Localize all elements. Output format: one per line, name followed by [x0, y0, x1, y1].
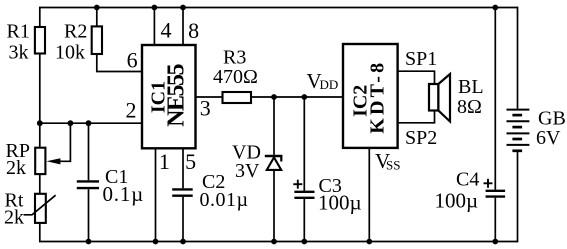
wire battery bottom lead [517, 152, 519, 243]
potentiometer RP [6, 140, 61, 179]
wire C4 top lead [494, 8, 496, 190]
wire VSS to bottom rail [368, 148, 370, 242]
wire bottom rail [40, 241, 518, 243]
svg-text:SP1: SP1 [405, 48, 437, 70]
node junction dot C4/bottom rail [492, 239, 498, 245]
svg-text:3: 3 [200, 96, 211, 121]
node junction dot pin1/bottom rail [153, 239, 159, 245]
node VDD label [307, 69, 339, 93]
node junction dot C2/bottom rail [180, 239, 186, 245]
wire pin 2 horizontal [40, 122, 142, 124]
wire R2 to pin 6 [97, 54, 142, 72]
resistor R1 [7, 21, 46, 64]
svg-text:3V: 3V [235, 160, 260, 182]
wire R3 to IC2 VDD [251, 96, 343, 98]
svg-text:8Ω: 8Ω [457, 96, 482, 118]
svg-text:2: 2 [126, 97, 137, 122]
plus sign C3 [293, 183, 302, 185]
wire R1 to pin2 node [39, 54, 41, 148]
svg-text:100µ: 100µ [318, 191, 362, 215]
resistor R3 [213, 47, 258, 104]
svg-text:6: 6 [127, 48, 138, 73]
wire top rail [40, 7, 518, 9]
svg-text:R2: R2 [64, 21, 87, 43]
wire C2 to bottom rail [182, 197, 184, 242]
thermistor diagonal stroke [24, 195, 56, 215]
svg-text:SP2: SP2 [405, 127, 437, 149]
svg-text:4: 4 [161, 18, 172, 43]
svg-text:6V: 6V [536, 127, 561, 149]
node junction dot C1 tap [86, 120, 92, 126]
node junction dot C4/top rail [492, 5, 498, 11]
wire battery top lead [517, 7, 519, 109]
speaker BL [429, 74, 484, 122]
wire pin 4 [153, 8, 155, 46]
capacitor C4 (polarized) [435, 169, 506, 213]
node junction dot pin4/top rail [152, 5, 158, 11]
plus sign C4 [484, 182, 493, 184]
svg-text:SS: SS [386, 158, 400, 173]
capacitor C3 (polarized) [293, 175, 361, 215]
wire RP wiper arrow lead [60, 123, 71, 161]
wire C3 top lead [303, 97, 305, 191]
wire SP1 to speaker [398, 71, 435, 84]
capacitor C1 [77, 166, 144, 206]
node junction dot C3/bottom rail [301, 239, 307, 245]
svg-text:100µ: 100µ [435, 188, 479, 212]
wire C3 bottom lead [303, 199, 305, 242]
wiper arrowhead [47, 158, 61, 164]
zener diode VD [232, 141, 282, 182]
svg-text:0.1µ: 0.1µ [103, 182, 145, 206]
node junction dot R2/top rail [94, 5, 100, 11]
node junction dot VD/bottom rail [271, 239, 277, 245]
svg-text:R1: R1 [7, 21, 30, 43]
speaker cone [438, 74, 450, 122]
thermistor Rt [4, 190, 56, 229]
node VSS label [375, 149, 400, 173]
wire SP2 to speaker [398, 111, 435, 123]
timer IC1 NE555 [142, 45, 196, 148]
node junction dot wiper tap [68, 120, 74, 126]
node junction dot pin2/left rail [37, 120, 43, 126]
wire left vertical top (rail to R1) [39, 7, 41, 27]
resistor R2 [55, 21, 102, 64]
node junction dot VD/VDD wire [271, 94, 277, 100]
wire C1 top lead [88, 123, 90, 180]
wire RP to Rt [39, 174, 41, 194]
wire C4 bottom lead [494, 198, 496, 242]
node junction dot VSS/bottom rail [366, 239, 372, 245]
svg-text:C4: C4 [456, 169, 479, 191]
wire VD top lead [273, 97, 275, 155]
node junction dot C3/VDD wire [301, 94, 307, 100]
svg-text:5: 5 [185, 149, 196, 174]
wire pin 8 [182, 8, 184, 46]
wire VD bottom lead [273, 169, 275, 242]
node junction dot C1/bottom rail [86, 239, 92, 245]
wire pin 3 to R3 [196, 96, 223, 98]
svg-text:10k: 10k [55, 41, 85, 63]
svg-text:2k: 2k [4, 207, 24, 229]
IC2 KDT-8 [343, 44, 398, 148]
capacitor C2 [172, 171, 248, 211]
svg-text:KDT-8: KDT-8 [367, 60, 389, 134]
svg-text:DD: DD [320, 77, 339, 92]
svg-text:NE555: NE555 [164, 63, 190, 126]
node junction dot pin8/top rail [180, 5, 186, 11]
svg-text:8: 8 [188, 18, 199, 43]
wire Rt to bottom rail [39, 223, 41, 243]
svg-text:2k: 2k [6, 157, 26, 179]
svg-text:470Ω: 470Ω [213, 66, 258, 88]
svg-text:0.01µ: 0.01µ [200, 189, 249, 211]
battery plates [507, 109, 530, 111]
wire R2 top lead [96, 8, 98, 27]
battery GB [507, 108, 566, 151]
wire C1 bottom lead [88, 189, 90, 241]
svg-text:BL: BL [458, 76, 484, 98]
wire pin 1 [155, 148, 157, 241]
wire pin 5 to C2 [182, 148, 184, 188]
svg-text:3k: 3k [9, 41, 29, 63]
svg-text:1: 1 [159, 149, 170, 174]
